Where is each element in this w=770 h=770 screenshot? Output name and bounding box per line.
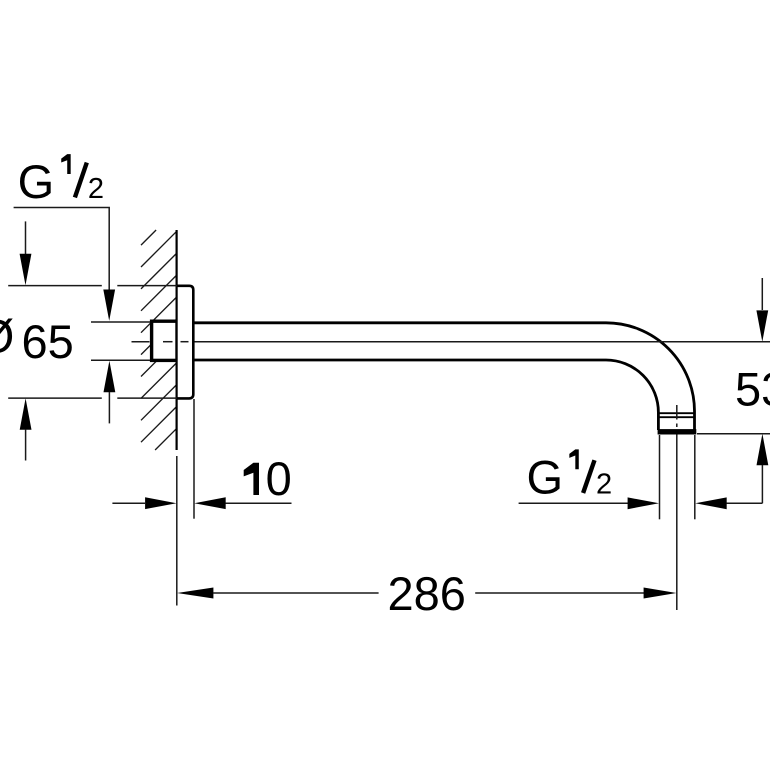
svg-text:G: G [527,450,564,503]
53 dim up arrow tail [761,465,763,503]
G1/2 top-left label underline and leader [14,208,110,291]
G1/2 left dim up arrow tail [108,392,110,423]
outlet vertical centerline dash [676,405,678,420]
53 dim down arrow tail [761,278,763,310]
G1/2 right dim right tail to 53 dim [727,502,763,504]
svg-text:2: 2 [88,173,104,205]
outlet thread end face band [658,429,697,434]
outlet vertical centerline extension to 286 dim [676,435,678,611]
53 dim bottom reference line [697,433,770,435]
label 1/2 fraction numerator 1 top-left [61,154,70,174]
outlet thread shoulder line 2 [660,416,694,418]
horizontal centerline dash 1 [132,341,150,343]
svg-text:286: 286 [388,567,466,620]
dia65 dim up arrow tail [25,430,27,461]
wall face extension line down [176,456,178,606]
wall-side G1/2 thread nipple [152,321,177,360]
10 dim right (left-pointing) arrow [194,497,225,509]
286 dim left-pointing arrow [177,588,213,599]
G1/2 left dim down arrow [103,290,115,321]
label 1/2 fraction slash right [583,460,594,493]
dia65 dim down arrow tail [25,221,27,254]
dia65 dim down arrow [20,254,32,285]
svg-text:0: 0 [266,452,292,505]
53 dim down arrow [756,310,768,341]
horizontal centerline dash 3 [181,341,189,343]
shower arm tube top outline with 90 deg bend [195,323,695,430]
flange bottom extension line segment a [8,397,102,399]
label 10 value digit 1 [244,463,259,495]
G1/2 left dim up arrow [104,361,116,392]
svg-text:2: 2 [596,468,612,500]
svg-text:Ø: Ø [0,310,14,363]
shower arm tube bottom outline with 90 deg bend [195,360,659,430]
outlet vertical centerline dot [676,424,678,428]
flange bottom extension line segment b [117,397,177,399]
outlet thread left extension line [659,435,661,519]
10 dim left (right-pointing) arrow [145,497,176,509]
nipple bottom extension line [91,359,150,361]
wall face line [176,230,178,450]
horizontal centerline / 53 dim top reference line [195,341,770,343]
wall section hatching [141,230,176,450]
286 dim line left segment [213,592,379,594]
286 dim line right segment [475,592,644,594]
horizontal centerline dash 2 [163,341,173,343]
svg-text:53: 53 [735,363,770,416]
G1/2 right dim right-pointing arrow [628,497,659,509]
dia65 dim up arrow [20,398,32,429]
nipple top extension line [91,321,150,323]
G1/2 right dim line left segment [519,502,628,504]
outlet thread right extension line [694,435,696,519]
flange face extension line down [193,399,195,519]
flange top extension line segment b [117,285,177,287]
286 dim right-pointing arrow [644,588,677,599]
wall flange (escutcheon, dia 65) [177,286,194,399]
G1/2 right dim left-pointing arrow [695,497,726,509]
svg-text:65: 65 [22,315,74,368]
flange top extension line segment a [8,285,102,287]
label 1/2 fraction slash top-left [75,163,87,198]
53 dim up arrow [757,434,769,465]
10 dim right arrow tail [226,502,292,504]
outlet thread shoulder line 1 [660,412,694,414]
svg-text:G: G [18,155,55,208]
10 dim left arrow tail [112,502,145,504]
label 1/2 fraction numerator 1 right [569,449,578,469]
